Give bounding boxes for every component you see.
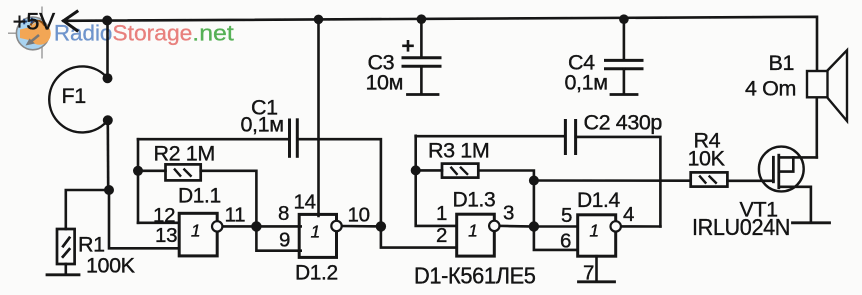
svg-text:8: 8 xyxy=(278,202,289,225)
svg-text:14: 14 xyxy=(294,191,316,214)
svg-text:11: 11 xyxy=(225,203,246,226)
svg-text:13: 13 xyxy=(155,224,177,247)
svg-text:D1.2: D1.2 xyxy=(295,261,338,284)
svg-text:1: 1 xyxy=(468,220,478,240)
svg-text:10м: 10м xyxy=(366,71,404,95)
svg-text:1: 1 xyxy=(436,202,447,225)
svg-text:B1: B1 xyxy=(769,51,795,75)
svg-text:10K: 10K xyxy=(688,146,726,170)
svg-text:3: 3 xyxy=(503,201,514,224)
svg-text:D1-К561ЛЕ5: D1-К561ЛЕ5 xyxy=(414,262,536,288)
svg-text:Radio: Radio xyxy=(54,20,113,45)
svg-text:4: 4 xyxy=(623,203,634,226)
svg-text:D1.4: D1.4 xyxy=(577,189,620,212)
svg-text:6: 6 xyxy=(560,229,571,252)
svg-text:IRLU024N: IRLU024N xyxy=(692,214,790,240)
svg-text:7: 7 xyxy=(583,262,594,285)
svg-text:2: 2 xyxy=(436,224,447,247)
svg-text:C2 430p: C2 430p xyxy=(584,111,663,135)
svg-text:9: 9 xyxy=(279,228,290,251)
svg-text:.net: .net xyxy=(192,20,234,45)
svg-text:1: 1 xyxy=(589,221,599,241)
svg-text:5: 5 xyxy=(561,204,572,227)
svg-text:100K: 100K xyxy=(86,254,136,278)
svg-text:+5V: +5V xyxy=(13,9,56,36)
svg-text:D1.3: D1.3 xyxy=(453,189,496,212)
svg-text:1: 1 xyxy=(191,221,201,241)
svg-text:F1: F1 xyxy=(62,84,86,108)
svg-text:R2 1M: R2 1M xyxy=(154,142,215,166)
svg-text:0,1м: 0,1м xyxy=(565,71,608,95)
svg-text:R3 1M: R3 1M xyxy=(428,139,489,163)
svg-text:Storage: Storage xyxy=(112,20,192,45)
svg-text:D1.1: D1.1 xyxy=(178,185,221,208)
svg-text:0,1м: 0,1м xyxy=(241,113,284,137)
svg-text:1: 1 xyxy=(311,221,321,241)
svg-text:4 Om: 4 Om xyxy=(745,77,796,101)
svg-text:10: 10 xyxy=(348,203,370,226)
